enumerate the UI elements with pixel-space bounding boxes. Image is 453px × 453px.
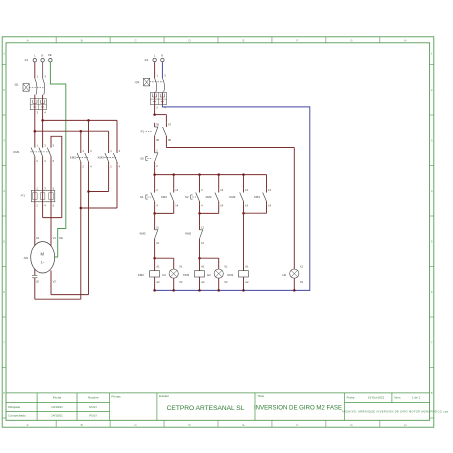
junction: [153, 113, 156, 116]
svg-text:RULY: RULY: [89, 414, 97, 418]
junction: [242, 212, 245, 215]
svg-text:Fecha: Fecha: [347, 396, 355, 400]
contactor KM1 main contacts: [13, 143, 54, 163]
wire lamp H0 to N: [293, 278, 295, 290]
lamp H1: [162, 265, 183, 284]
wire: [154, 175, 156, 189]
svg-text:S0: S0: [140, 157, 144, 161]
svg-text:A: A: [27, 39, 29, 43]
svg-text:-X1: -X1: [24, 58, 29, 62]
svg-text:A2: A2: [245, 280, 249, 284]
wire V2 to KM bus: [51, 270, 89, 294]
junction: [242, 173, 245, 176]
svg-text:B: B: [81, 423, 83, 427]
wire N to Q2: [161, 62, 163, 78]
wire coil to N: [154, 277, 156, 290]
wire KM2-2 down: [80, 164, 82, 299]
svg-text:H1: H1: [162, 273, 166, 277]
svg-text:X2: X2: [179, 280, 183, 284]
contact KM3 13-14: [206, 175, 224, 208]
wire coil KM1 to N: [243, 277, 245, 290]
wire KM3-4 tie: [81, 164, 117, 208]
junction: [80, 130, 83, 133]
svg-text:Firmas: Firmas: [112, 395, 122, 399]
coil KM2: [138, 258, 160, 284]
svg-text:KM1: KM1: [13, 150, 20, 154]
wire F1-4 to KM1-5: [43, 202, 62, 218]
wire: [199, 204, 201, 225]
pushbutton S2: [185, 188, 203, 207]
svg-text:N: N: [161, 53, 163, 57]
junction: [153, 289, 156, 292]
junction: [198, 257, 201, 260]
contactor KM2 main contacts: [70, 149, 92, 169]
svg-text:Dibujado: Dibujado: [8, 405, 20, 409]
svg-text:14/10/21: 14/10/21: [51, 405, 63, 409]
svg-text:B: B: [81, 39, 83, 43]
svg-text:U1: U1: [36, 236, 40, 240]
bus L1: [43, 120, 117, 152]
svg-text:1~: 1~: [41, 260, 45, 264]
junction: [153, 212, 156, 215]
junction: [217, 173, 220, 176]
svg-text:-X2: -X2: [144, 58, 149, 62]
overload contact F1 97-98: [163, 123, 172, 142]
wire KM1-6 to F1: [50, 159, 52, 191]
svg-text:S1: S1: [140, 195, 144, 199]
wire to KM2 pole3: [88, 120, 90, 152]
junction: [198, 212, 201, 215]
svg-text:-Q1: -Q1: [14, 83, 19, 87]
svg-text:KM3: KM3: [254, 195, 260, 199]
wire N to Q1: [42, 62, 44, 78]
terminal X1:L: [24, 54, 37, 63]
wire: [154, 242, 156, 259]
svg-text:KM2: KM2: [70, 156, 77, 160]
svg-text:-F1: -F1: [21, 193, 26, 197]
wire: [154, 204, 156, 225]
svg-text:RULY: RULY: [89, 405, 97, 409]
wire F1-6 to motor V1: [50, 202, 52, 246]
wire PE green: [50, 62, 65, 257]
lamp H2: [207, 265, 228, 284]
wire lamp branch: [200, 258, 219, 269]
svg-text:KM2: KM2: [138, 273, 145, 277]
interlock contact KM2 11-12: [185, 225, 204, 244]
svg-text:PE: PE: [48, 53, 52, 57]
bus L2: [35, 131, 109, 152]
wire lamp to N: [218, 278, 220, 290]
junction: [41, 119, 44, 122]
svg-text:H0: H0: [282, 273, 286, 277]
wire: [243, 175, 245, 189]
junction: [293, 289, 296, 292]
junction: [198, 289, 201, 292]
svg-text:KM3: KM3: [183, 273, 190, 277]
svg-text:X2: X2: [300, 280, 304, 284]
svg-text:Nombre: Nombre: [88, 396, 99, 400]
junction: [153, 173, 156, 176]
svg-text:CETPRO ARTESANAL SL: CETPRO ARTESANAL SL: [167, 405, 245, 412]
svg-text:KM1: KM1: [227, 273, 234, 277]
control bus: [155, 174, 267, 176]
svg-text:14/10/21: 14/10/21: [51, 414, 63, 418]
coil KM1: [227, 204, 249, 284]
svg-text:H: H: [404, 39, 406, 43]
lamp H0: [282, 265, 303, 284]
wire parallel join: [244, 204, 267, 213]
svg-text:Núm.: Núm.: [394, 396, 401, 400]
svg-text:F: F: [297, 423, 299, 427]
wire motor U2 down: [34, 269, 36, 276]
terminal X1:PE: [48, 53, 52, 62]
junction: [172, 173, 175, 176]
svg-text:F1: F1: [141, 130, 145, 134]
svg-text:A1: A1: [201, 265, 205, 269]
svg-text:V1: V1: [53, 236, 57, 240]
interlock contact KM3 11-12: [140, 225, 160, 244]
svg-text:N: N: [41, 54, 43, 58]
svg-text:Entidad: Entidad: [159, 394, 169, 398]
svg-text:A1: A1: [156, 265, 160, 269]
terminal X2:N: [161, 53, 164, 61]
wire parallel join: [200, 204, 219, 213]
terminal X1:N: [41, 54, 44, 62]
svg-text:13-Oct-2021: 13-Oct-2021: [368, 396, 385, 400]
breaker Q1: [14, 75, 47, 95]
wire: [199, 242, 201, 259]
svg-text:Fecha: Fecha: [53, 396, 62, 400]
svg-text:KM2: KM2: [229, 195, 235, 199]
svg-text:-Q2: -Q2: [134, 80, 139, 84]
wire parallel join: [155, 204, 174, 213]
svg-text:KM2: KM2: [161, 195, 167, 199]
pushbutton S1: [140, 188, 158, 207]
junction: [242, 289, 245, 292]
pushbutton S0: [140, 148, 158, 167]
svg-text:KM2: KM2: [185, 232, 191, 236]
svg-text:KM3: KM3: [206, 195, 212, 199]
svg-text:H2: H2: [207, 273, 211, 277]
title block: [6, 393, 449, 420]
wire to KM2 pole1: [80, 131, 82, 152]
wire KM3-2 tie: [89, 164, 109, 191]
svg-text:INVERSION DE GIRO M2 FASE: INVERSION DE GIRO M2 FASE: [254, 405, 342, 412]
junction: [217, 289, 220, 292]
coil KM3: [183, 258, 205, 284]
wire U2 to KM bus: [35, 278, 81, 299]
svg-text:V2: V2: [53, 279, 57, 283]
wire lamp to N: [173, 278, 175, 290]
svg-text:X1: X1: [179, 265, 183, 269]
junction: [87, 190, 90, 193]
svg-text:X1: X1: [224, 265, 228, 269]
svg-text:E: E: [242, 423, 244, 427]
wire Q1 pole1 out: [34, 95, 36, 99]
wire N blue rail: [155, 105, 310, 291]
wire Q1 pole2 out: [42, 95, 44, 99]
wire KM1-4 to F1: [42, 159, 44, 191]
svg-text:-M1: -M1: [23, 256, 28, 260]
wire S0 to bus: [154, 165, 156, 175]
contact KM3 13-14: [254, 175, 272, 208]
wire L to Q2: [154, 62, 156, 78]
wire KM2-4 down: [88, 164, 90, 294]
svg-text:E: E: [242, 39, 244, 43]
overload contact F1 95-96: [141, 123, 160, 142]
wire coil to N: [199, 277, 201, 290]
svg-text:KM3: KM3: [140, 232, 146, 236]
junction: [80, 207, 83, 210]
wire F1-2 to motor U1: [34, 202, 36, 246]
svg-text:H: H: [404, 423, 406, 427]
contact KM2 13-14: [161, 175, 179, 208]
wire KM1-2 to F1: [34, 159, 36, 191]
junction: [34, 130, 37, 133]
svg-text:U2: U2: [36, 279, 40, 283]
breaker Q2: [134, 74, 166, 93]
contactor KM3 main contacts: [98, 149, 121, 169]
wire: [199, 175, 201, 189]
contact KM2 13-14: [229, 188, 248, 207]
wire 98 to H0: [166, 139, 294, 269]
plug-socket X1: [30, 99, 46, 115]
motor M1: [23, 236, 63, 283]
junction: [153, 257, 156, 260]
svg-text:A2: A2: [156, 280, 160, 284]
svg-text:PE: PE: [59, 236, 63, 240]
wire N down: [42, 110, 44, 147]
svg-text:Título: Título: [257, 394, 264, 398]
wire L to Q1: [34, 62, 36, 78]
plug-socket X2: [150, 92, 166, 109]
wire lamp branch: [155, 258, 174, 269]
svg-text:F: F: [297, 39, 299, 43]
junction: [87, 119, 90, 122]
svg-text:S2: S2: [185, 195, 189, 199]
wire L down: [34, 110, 36, 147]
svg-text:X2: X2: [224, 280, 228, 284]
svg-text:A1: A1: [245, 265, 249, 269]
svg-text:ARCHIVO: ARRANQUE INVERSION DE: ARCHIVO: ARRANQUE INVERSION DE GIRO MOTO…: [342, 411, 449, 414]
wire 96 to S0: [154, 139, 156, 149]
svg-text:M: M: [41, 252, 45, 257]
svg-text:A: A: [27, 423, 29, 427]
svg-text:X1: X1: [300, 265, 304, 269]
svg-text:1 de 1: 1 de 1: [412, 396, 421, 400]
terminal X2:L: [144, 53, 156, 62]
svg-text:A2: A2: [201, 280, 205, 284]
wire KM1 pole5 loop: [51, 136, 62, 217]
junction: [172, 289, 175, 292]
svg-text:KM3: KM3: [98, 156, 105, 160]
overload relay F1: [21, 187, 55, 208]
wire L out: [154, 105, 156, 115]
svg-text:Comprobado: Comprobado: [8, 414, 26, 418]
wire to F1-97: [155, 115, 167, 123]
capacitor C1: [32, 276, 37, 278]
junction: [198, 173, 201, 176]
